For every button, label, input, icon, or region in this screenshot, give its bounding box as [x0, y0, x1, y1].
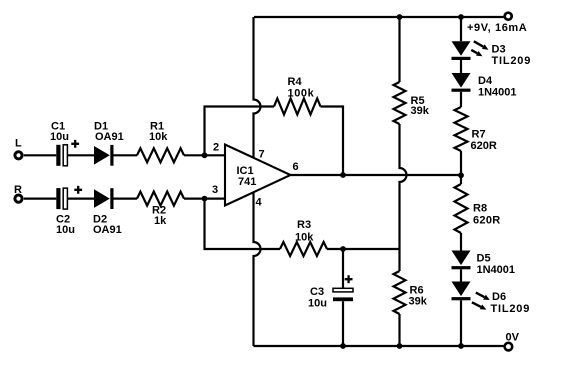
wire: output pin 6 to LED chain midpoint [291, 174, 462, 176]
resistor R4 (100k) [274, 99, 321, 115]
LED D6 (TIL209) [452, 282, 471, 301]
resistor R6 (39k) [394, 271, 406, 314]
svg-text:1k: 1k [154, 215, 167, 227]
svg-text:7: 7 [259, 149, 265, 161]
svg-text:0V: 0V [506, 332, 520, 344]
junction: pin 2 node [202, 152, 208, 158]
wire: pin 4 drop to 0V rail (hop over R3 wire) [254, 192, 261, 346]
svg-text:+9V, 16mA: +9V, 16mA [467, 22, 527, 34]
wire: V+ supply drop to op-amp pin 7 (hop over feedback wire) [254, 17, 261, 159]
wire: D5 to D6 [460, 269, 462, 281]
wire: R6 to 0V rail [398, 314, 400, 346]
svg-text:L: L [15, 138, 22, 150]
plus sign (C3 polarity) [345, 275, 353, 283]
terminal 0V [505, 343, 513, 351]
wire: R5 to R6 (hop over output wire) [400, 124, 407, 271]
op-amp IC1 741 [225, 145, 291, 206]
input terminal R [15, 195, 22, 202]
svg-text:620R: 620R [471, 140, 497, 152]
wire: C1 to D1 [68, 154, 94, 156]
wire: D2 to R2 [114, 198, 138, 200]
resistor R3 (10k) [280, 242, 327, 256]
svg-text:741: 741 [238, 176, 256, 188]
wire: R2 to op-amp pin 3 [184, 198, 225, 200]
plus sign (C1 polarity) [71, 140, 79, 148]
LED arrows (D6) [472, 293, 490, 310]
svg-text:4: 4 [256, 197, 263, 209]
svg-text:1N4001: 1N4001 [477, 264, 516, 276]
svg-text:39k: 39k [409, 296, 428, 308]
wire: pin 3 node down and right to R3 [205, 199, 281, 249]
svg-text:6: 6 [293, 161, 299, 173]
wire: R3 to R5/R6 divider node [327, 248, 400, 250]
svg-text:R3: R3 [297, 219, 311, 231]
svg-text:R4: R4 [288, 76, 303, 88]
junction: pin 3 node [202, 196, 208, 202]
junction: R3 / C3 node [340, 246, 346, 252]
diode D5 (1N4001) [452, 251, 471, 270]
wire: +9V rail to D3 [460, 17, 462, 41]
svg-text:D5: D5 [477, 253, 491, 265]
resistor R1 (10k) [137, 148, 184, 162]
svg-text:2: 2 [213, 142, 219, 154]
wire: L terminal to C1 [24, 154, 57, 156]
svg-text:39k: 39k [411, 105, 430, 117]
wire: +9V rail down to R5 [398, 17, 400, 82]
wire: R8 to D5 [460, 233, 462, 251]
svg-text:OA91: OA91 [95, 131, 124, 143]
capacitor C2 (10u) [56, 188, 67, 209]
wire: D1 to R1 [114, 154, 138, 156]
junction: R6 / 0V rail [397, 343, 403, 349]
svg-text:OA91: OA91 [93, 224, 122, 236]
diode D2 (OA91) [94, 188, 114, 209]
wire: top +9V rail [254, 16, 504, 18]
svg-text:10k: 10k [149, 131, 168, 143]
wire: D6 to 0V rail [460, 300, 462, 346]
resistor R5 (39k) [394, 82, 406, 124]
wire: R terminal to C2 [24, 198, 57, 200]
diode D4 (1N4001) [452, 73, 471, 92]
wire: C3 branch from R3 node [342, 249, 344, 288]
svg-text:10u: 10u [308, 298, 327, 310]
junction: rail / LED column top [458, 14, 464, 20]
junction: rail / R5 column [397, 14, 403, 20]
junction: LED column / 0V rail [458, 343, 464, 349]
diode D1 (OA91) [94, 145, 114, 166]
wire: D4 to R7 [460, 92, 462, 107]
svg-text:TIL209: TIL209 [491, 303, 531, 315]
plus sign (C2 polarity) [74, 186, 82, 194]
wire: 0V bottom rail [254, 345, 504, 347]
svg-text:3: 3 [212, 184, 218, 196]
resistor R7 (620R) [455, 107, 468, 151]
svg-text:C3: C3 [310, 286, 324, 298]
junction: C3 / 0V rail [340, 343, 346, 349]
svg-text:D3: D3 [492, 44, 506, 56]
wire: R1 to op-amp pin 2 [184, 154, 225, 156]
svg-text:R8: R8 [473, 203, 487, 215]
wire: feedback riser from pin 2 node to R4 [205, 107, 275, 156]
svg-text:TIL209: TIL209 [492, 55, 532, 67]
svg-text:100k: 100k [288, 88, 315, 100]
input terminal L [15, 152, 22, 159]
svg-text:R7: R7 [472, 129, 486, 141]
junction: output / LED column [458, 172, 464, 178]
junction: output / R4 feedback node [340, 172, 346, 178]
svg-text:10u: 10u [56, 224, 75, 236]
svg-text:D4: D4 [478, 75, 493, 87]
svg-text:10k: 10k [295, 232, 314, 244]
svg-text:R: R [14, 184, 22, 196]
capacitor C1 (10u) [56, 145, 67, 166]
terminal +9V [505, 13, 512, 20]
wire: R7 to output node [460, 151, 462, 184]
svg-text:D6: D6 [492, 291, 506, 303]
resistor R8 (620R) [455, 184, 468, 233]
wire: C3 to 0V rail [342, 301, 344, 346]
wire: D3 to D4 [460, 60, 462, 73]
wire: C2 to D2 [68, 198, 94, 200]
capacitor C3 (10u) [333, 288, 353, 301]
resistor R2 (1k) [137, 192, 184, 206]
svg-text:10u: 10u [50, 131, 69, 143]
wire: R4 right arm down to output node [321, 107, 344, 176]
svg-text:1N4001: 1N4001 [478, 87, 517, 99]
LED D3 (TIL209) [452, 41, 471, 60]
LED arrows (D3) [471, 41, 488, 56]
svg-text:620R: 620R [473, 215, 501, 227]
